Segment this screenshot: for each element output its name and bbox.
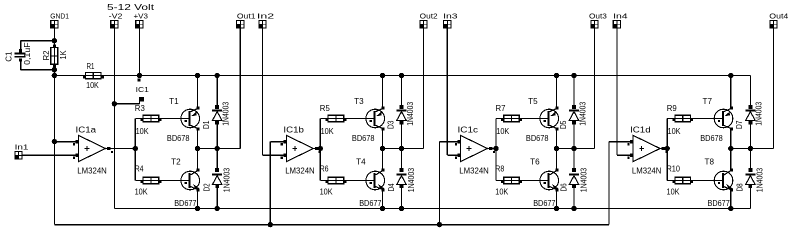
- diode D6 1N4003: [559, 149, 588, 209]
- svg-text:D7: D7: [735, 120, 744, 129]
- resistor R4 10K: [135, 164, 190, 196]
- op-amp IC1c LM324N: [455, 125, 495, 175]
- node junction R-split ch2: [318, 146, 323, 151]
- label 5-12 Volt: [107, 3, 155, 12]
- diode D7 1N4003: [735, 76, 764, 149]
- svg-text:BD678: BD678: [167, 134, 190, 143]
- diode D2 1N4003: [203, 149, 232, 209]
- wire C1-R2 top link: [21, 40, 55, 42]
- svg-text:R4: R4: [135, 164, 144, 173]
- svg-text:1N4003: 1N4003: [578, 101, 587, 125]
- svg-text:T6: T6: [530, 157, 540, 166]
- resistor R3 10K: [135, 104, 190, 136]
- wire In4 pad stem down: [616, 28, 618, 155]
- svg-text:10K: 10K: [136, 127, 150, 136]
- svg-text:R10: R10: [667, 164, 681, 173]
- wire noninv input lead ch1: [54, 141, 78, 143]
- resistor R9 10K: [667, 104, 723, 136]
- svg-text:T3: T3: [354, 97, 364, 106]
- diode D5 1N4003: [559, 76, 588, 149]
- resistor R2 1K: [42, 44, 68, 67]
- wire bias riser ch3: [438, 142, 440, 225]
- connector GND1: [50, 11, 69, 28]
- node junction T4 collector node: [380, 146, 385, 151]
- svg-text:LM324N: LM324N: [77, 166, 107, 175]
- svg-text:BD677: BD677: [359, 199, 382, 208]
- svg-text:1N4003: 1N4003: [406, 101, 415, 125]
- wire output node ch1: [198, 148, 241, 150]
- wire +V3 pad stem: [138, 28, 140, 75]
- svg-text:Out3: Out3: [589, 11, 607, 20]
- wire R column ch1: [134, 119, 136, 181]
- wire rail3 bias bottom: [54, 224, 609, 226]
- svg-text:IC1d: IC1d: [630, 125, 651, 134]
- node junction R-split ch3: [493, 146, 498, 151]
- node junction D1 on rail1: [215, 73, 220, 78]
- wire output node ch3: [557, 148, 595, 150]
- wire rail2 -V supply: [114, 208, 750, 210]
- power flag IC1: [139, 97, 144, 104]
- resistor R6 10K: [320, 164, 375, 196]
- svg-text:In2: In2: [257, 11, 274, 20]
- transistor T6 BD677: [530, 149, 558, 209]
- node junction D3 on output node: [399, 146, 404, 151]
- node junction D7 on output node: [748, 146, 753, 151]
- wire IC1 power stub: [114, 103, 139, 105]
- connector Out2: [419, 11, 437, 28]
- svg-text:10K: 10K: [321, 127, 335, 136]
- svg-text:T1: T1: [169, 97, 179, 106]
- node junction riser ch3 on bias rail: [437, 222, 442, 227]
- wire op-amp output ch4: [660, 148, 667, 150]
- resistor R8 10K: [495, 164, 549, 196]
- wire op-amp output ch3: [488, 148, 497, 150]
- svg-text:10K: 10K: [135, 187, 149, 196]
- svg-text:BD677: BD677: [708, 199, 731, 208]
- svg-text:10K: 10K: [667, 187, 681, 196]
- node junction D5 on output node: [571, 146, 576, 151]
- svg-text:D4: D4: [387, 183, 396, 191]
- svg-text:BD677: BD677: [533, 199, 556, 208]
- svg-text:LM324N: LM324N: [285, 166, 315, 175]
- wire R column ch4: [666, 119, 668, 181]
- node junction power stub on -V2: [112, 101, 117, 106]
- node junction D4 on rail2: [399, 206, 404, 211]
- svg-text:IC1c: IC1c: [458, 125, 479, 134]
- wire Out3 riser: [594, 28, 596, 148]
- connector In4: [613, 11, 628, 28]
- node junction T2 collector node: [195, 146, 200, 151]
- wire C1 top lead: [20, 41, 22, 50]
- svg-text:R1: R1: [87, 62, 95, 71]
- connector In1: [14, 143, 28, 160]
- node junction D5 on rail1: [571, 73, 576, 78]
- svg-text:10K: 10K: [495, 187, 509, 196]
- wire In3 pad stem down: [446, 28, 448, 155]
- wire In4 to inverting input: [617, 154, 633, 156]
- wire R column ch2: [319, 119, 321, 181]
- svg-text:Out1: Out1: [237, 11, 256, 20]
- svg-text:D5: D5: [559, 120, 568, 129]
- wire C1-R2 bottom link: [21, 69, 55, 71]
- wire In2 to inverting input: [263, 154, 287, 156]
- svg-text:IC1b: IC1b: [283, 125, 304, 134]
- svg-text:IC1a: IC1a: [76, 125, 97, 134]
- svg-text:1N4003: 1N4003: [223, 167, 232, 192]
- wire Out2 riser: [423, 28, 425, 148]
- node junction T4 emitter on rail2: [380, 206, 385, 211]
- connector +V3: [134, 11, 149, 28]
- svg-text:Out4: Out4: [769, 11, 788, 20]
- wire output node ch2: [383, 148, 424, 150]
- transistor T3 BD678: [352, 76, 385, 149]
- transistor T4 BD677: [356, 149, 384, 209]
- svg-text:R2: R2: [42, 50, 51, 61]
- transistor T2 BD677: [171, 149, 199, 209]
- svg-text:T4: T4: [356, 157, 366, 166]
- capacitor C1: [4, 42, 32, 65]
- diode D1 1N4003: [202, 76, 231, 149]
- svg-text:D1: D1: [202, 120, 211, 129]
- node junction R-split ch1: [133, 146, 138, 151]
- label IC1 power flag: [136, 85, 149, 94]
- wire output node ch4: [731, 148, 774, 150]
- node junction riser ch2 on bias rail: [268, 222, 273, 227]
- node junction bias rail left: [52, 73, 57, 78]
- node junction D1 on output node: [215, 146, 220, 151]
- diode D4 1N4003: [387, 149, 416, 209]
- wire op-amp output ch2: [313, 148, 320, 150]
- svg-text:T7: T7: [703, 97, 713, 106]
- svg-text:R9: R9: [667, 104, 678, 113]
- svg-text:In1: In1: [15, 143, 29, 152]
- op-amp IC1d LM324N: [627, 125, 667, 175]
- svg-text:IC1: IC1: [136, 85, 149, 94]
- wire bias vertical x54: [53, 76, 55, 225]
- svg-text:BD678: BD678: [352, 134, 375, 143]
- svg-text:LM324N: LM324N: [459, 166, 489, 175]
- svg-text:1N4003: 1N4003: [755, 101, 764, 125]
- transistor T1 BD678: [167, 76, 200, 149]
- node junction T1 on rail1: [195, 73, 200, 78]
- node junction D3 on rail1: [399, 73, 404, 78]
- diode D8 1N4003: [736, 149, 765, 209]
- node junction +V3 on rail1: [137, 73, 142, 82]
- svg-text:LM324N: LM324N: [632, 166, 662, 175]
- svg-text:In3: In3: [443, 11, 458, 20]
- svg-text:10K: 10K: [668, 127, 682, 136]
- svg-text:10K: 10K: [86, 81, 99, 90]
- svg-text:T8: T8: [705, 157, 715, 166]
- connector -V2: [109, 11, 123, 28]
- wire In3 to inverting input: [447, 154, 460, 156]
- node junction T3 on rail1: [380, 73, 385, 78]
- wire bias riser ch2: [269, 142, 271, 225]
- wire rail1 segment left: [54, 75, 85, 77]
- wire R2 top lead: [53, 41, 55, 48]
- node junction GND/C1/R2 top: [52, 38, 57, 43]
- svg-text:R5: R5: [320, 104, 331, 113]
- svg-text:BD678: BD678: [700, 134, 723, 143]
- svg-text:GND1: GND1: [50, 11, 69, 20]
- svg-text:10K: 10K: [320, 187, 334, 196]
- connector In2: [257, 11, 274, 28]
- resistor R10 10K: [667, 164, 724, 196]
- svg-text:0,1uF: 0,1uF: [23, 42, 32, 65]
- node junction T7 on rail1: [728, 73, 733, 78]
- transistor T8 BD677: [705, 149, 733, 209]
- svg-text:1N4003: 1N4003: [756, 167, 765, 192]
- transistor T5 BD678: [526, 76, 559, 149]
- node junction D6 on rail2: [571, 206, 576, 211]
- svg-text:D6: D6: [559, 183, 568, 191]
- wire -V2 pad stem down: [113, 28, 115, 208]
- transistor T7 BD678: [700, 76, 733, 149]
- wire noninv input lead ch4: [609, 141, 633, 143]
- wire Out1 riser: [239, 28, 241, 148]
- svg-text:D8: D8: [736, 183, 745, 191]
- node junction T8 emitter on rail2: [728, 206, 733, 211]
- wire op-amp output ch1: [106, 148, 136, 150]
- svg-text:1N4003: 1N4003: [407, 167, 416, 192]
- resistor R1 10K: [83, 62, 104, 90]
- svg-text:R3: R3: [135, 104, 146, 113]
- svg-text:10K: 10K: [496, 127, 510, 136]
- wire noninv input lead ch3: [439, 141, 460, 143]
- svg-text:1N4003: 1N4003: [222, 101, 231, 125]
- connector Out4: [769, 11, 788, 28]
- node junction R2 bottom: [52, 67, 57, 72]
- node junction D2 on rail2: [215, 206, 220, 211]
- resistor R5 10K: [320, 104, 375, 136]
- node junction T5 on rail1: [554, 73, 559, 78]
- svg-text:1K: 1K: [59, 50, 68, 60]
- svg-text:In4: In4: [613, 11, 628, 20]
- wire Out4 riser: [773, 28, 775, 148]
- svg-text:+V3: +V3: [134, 11, 149, 20]
- op-amp IC1a LM324N: [73, 125, 113, 175]
- node junction IC1a noninv input tap: [52, 139, 57, 144]
- wire R column ch3: [495, 119, 497, 181]
- node junction T6 emitter on rail2: [554, 206, 559, 211]
- svg-text:T5: T5: [528, 97, 538, 106]
- wire GND1 pad stem: [53, 28, 55, 40]
- connector In3: [443, 11, 458, 28]
- node junction T8 collector node: [728, 146, 733, 151]
- svg-text:-V2: -V2: [109, 11, 123, 20]
- node junction R-split ch4: [665, 146, 670, 151]
- svg-text:D2: D2: [203, 183, 212, 191]
- wire bias riser ch4: [608, 142, 610, 225]
- svg-text:BD677: BD677: [174, 199, 197, 208]
- wire In1 lead: [23, 154, 79, 156]
- svg-text:T2: T2: [171, 157, 181, 166]
- svg-text:R7: R7: [496, 104, 507, 113]
- svg-text:D3: D3: [386, 120, 395, 129]
- wire C1 bottom lead: [20, 60, 22, 70]
- node junction T6 collector node: [554, 146, 559, 151]
- diode D3 1N4003: [386, 76, 415, 149]
- wire noninv input lead ch2: [270, 141, 286, 143]
- node junction T2 emitter on rail2: [195, 206, 200, 211]
- op-amp IC1b LM324N: [281, 125, 321, 175]
- svg-text:Out2: Out2: [420, 11, 438, 20]
- wire rail1 +V supply: [101, 75, 750, 77]
- resistor R7 10K: [496, 104, 549, 136]
- connector Out3: [589, 11, 607, 28]
- wire R2 bottom lead: [53, 64, 55, 75]
- connector Out1: [236, 11, 255, 28]
- svg-text:1N4003: 1N4003: [579, 167, 588, 192]
- svg-text:R6: R6: [320, 164, 329, 173]
- svg-text:C1: C1: [4, 51, 13, 62]
- svg-text:R8: R8: [495, 164, 504, 173]
- svg-text:BD678: BD678: [526, 134, 549, 143]
- wire In2 pad stem down: [262, 28, 264, 155]
